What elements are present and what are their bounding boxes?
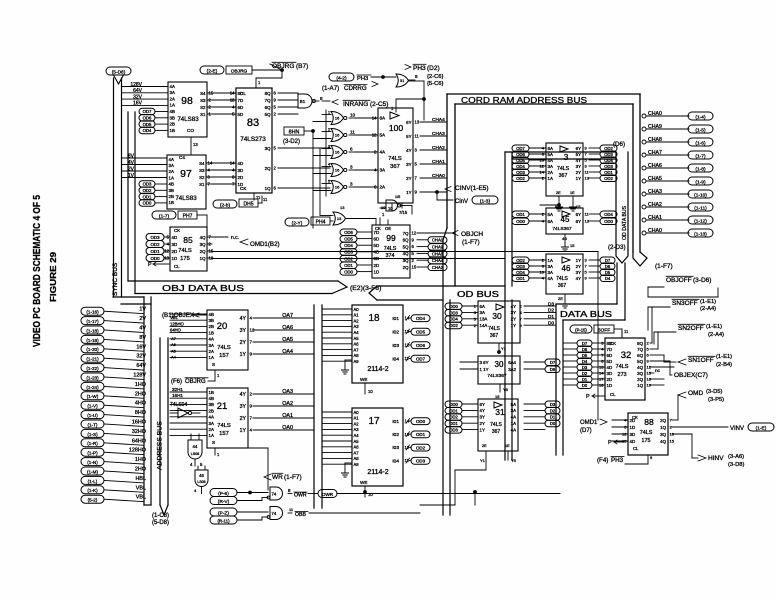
svg-text:13: 13 bbox=[340, 205, 345, 210]
net CHA8 to (1-6) bbox=[642, 140, 646, 144]
collector bus vertical bbox=[143, 297, 145, 505]
svg-text:1 1Y: 1 1Y bbox=[480, 367, 489, 372]
svg-text:OD4: OD4 bbox=[416, 316, 426, 321]
svg-text:OMD1: OMD1 bbox=[580, 420, 598, 426]
ic U32 74LS273 bbox=[605, 338, 645, 400]
svg-text:2Y: 2Y bbox=[480, 421, 485, 426]
svg-text:1Y: 1Y bbox=[240, 428, 247, 434]
svg-text:D3: D3 bbox=[582, 365, 588, 370]
svg-text:OD3: OD3 bbox=[516, 170, 525, 175]
nand gate G9 bbox=[270, 507, 283, 520]
svg-text:OD1: OD1 bbox=[604, 170, 613, 175]
svg-text:3Q: 3Q bbox=[403, 258, 409, 263]
svg-text:3D: 3D bbox=[630, 432, 636, 437]
svg-text:VBL: VBL bbox=[136, 485, 146, 491]
ic U3 row 5A bbox=[512, 151, 529, 158]
svg-text:HINV: HINV bbox=[708, 455, 724, 462]
svg-text:32H1: 32H1 bbox=[172, 387, 183, 392]
svg-text:2B: 2B bbox=[170, 122, 175, 127]
svg-text:16HO: 16HO bbox=[132, 420, 146, 426]
wire wr vertical bbox=[267, 448, 269, 490]
svg-text:CINV(1-E5): CINV(1-E5) bbox=[455, 185, 489, 192]
svg-text:2Q: 2Q bbox=[403, 265, 409, 270]
svg-text:1A: 1A bbox=[548, 258, 553, 263]
svg-text:OD2: OD2 bbox=[604, 146, 613, 151]
svg-text:74LS: 74LS bbox=[217, 423, 231, 429]
svg-text:OD5: OD5 bbox=[344, 237, 353, 242]
we junctions bbox=[364, 491, 367, 494]
svg-text:2Q: 2Q bbox=[660, 418, 666, 423]
svg-text:D5: D5 bbox=[605, 270, 611, 275]
svg-text:12: 12 bbox=[412, 231, 417, 236]
inner vertical bus v1 bbox=[442, 240, 444, 515]
svg-text:2A: 2A bbox=[548, 170, 553, 175]
svg-text:(R-11): (R-11) bbox=[217, 518, 230, 523]
svg-text:OBB: OBB bbox=[295, 512, 306, 518]
svg-text:4Q: 4Q bbox=[403, 251, 409, 256]
ic U3 74LS367 bbox=[546, 143, 583, 196]
svg-text:OD3: OD3 bbox=[416, 459, 426, 464]
nor gate G5 bbox=[331, 146, 343, 159]
svg-text:128HO: 128HO bbox=[129, 448, 146, 454]
svg-text:OD2: OD2 bbox=[516, 258, 525, 263]
wire 1Q long bbox=[212, 258, 505, 260]
svg-text:OD4: OD4 bbox=[604, 212, 613, 217]
svg-text:OA6: OA6 bbox=[282, 325, 293, 331]
svg-text:2Y: 2Y bbox=[240, 340, 247, 346]
svg-text:1B: 1B bbox=[169, 200, 174, 205]
svg-text:1A: 1A bbox=[169, 175, 174, 180]
nor gate G7 bbox=[331, 181, 343, 194]
svg-text:2HO: 2HO bbox=[135, 467, 146, 473]
svg-text:3 6Y: 3 6Y bbox=[480, 360, 489, 365]
svg-text:D7: D7 bbox=[605, 258, 611, 263]
ram U17 left pins bbox=[322, 411, 352, 413]
connector (1-20) net 16V bbox=[81, 345, 104, 353]
obj data bus horizontal bbox=[128, 280, 338, 282]
svg-text:128V: 128V bbox=[130, 82, 142, 88]
svg-text:(1-21): (1-21) bbox=[86, 357, 99, 362]
svg-text:4A: 4A bbox=[209, 415, 214, 420]
cord bus right verticals bbox=[639, 94, 641, 252]
svg-text:6D: 6D bbox=[607, 353, 613, 358]
svg-text:(1-7): (1-7) bbox=[159, 213, 170, 219]
wire 2Q long to right bbox=[212, 251, 598, 253]
svg-text:3Y: 3Y bbox=[576, 164, 581, 169]
net CHA0 to (1-4) bbox=[642, 114, 646, 118]
svg-text:1A: 1A bbox=[170, 103, 175, 108]
ic U99 input pills bbox=[340, 229, 357, 236]
svg-text:12: 12 bbox=[540, 164, 545, 169]
svg-text:D2: D2 bbox=[550, 408, 556, 413]
svg-text:ADDRESS BUS: ADDRESS BUS bbox=[157, 421, 164, 470]
svg-text:2114-2: 2114-2 bbox=[367, 366, 388, 373]
svg-text:A5: A5 bbox=[354, 336, 360, 341]
svg-text:OD5: OD5 bbox=[143, 122, 152, 127]
svg-text:CHA0: CHA0 bbox=[648, 111, 662, 117]
label VINV pill bbox=[672, 426, 728, 428]
svg-text:WE: WE bbox=[360, 377, 367, 382]
svg-text:1E: 1E bbox=[570, 191, 575, 195]
svg-text:8D: 8D bbox=[607, 341, 613, 346]
svg-text:C4: C4 bbox=[179, 155, 185, 160]
svg-text:D1: D1 bbox=[548, 314, 554, 320]
svg-text:CO: CO bbox=[187, 128, 194, 133]
svg-text:1D: 1D bbox=[172, 256, 178, 261]
svg-text:(1-4): (1-4) bbox=[695, 114, 706, 120]
svg-text:CHA0: CHA0 bbox=[648, 228, 662, 234]
svg-text:(2-Y): (2-Y) bbox=[292, 220, 303, 226]
svg-text:OD4: OD4 bbox=[516, 164, 525, 169]
ic U83 74LS273 bbox=[236, 88, 272, 193]
ram U18 2114-2 bbox=[352, 305, 403, 383]
svg-text:(1-P): (1-P) bbox=[87, 451, 98, 456]
svg-text:8V: 8V bbox=[128, 154, 135, 160]
svg-text:157: 157 bbox=[219, 353, 229, 359]
nor gate G3 bbox=[331, 112, 343, 125]
svg-text:98: 98 bbox=[181, 95, 193, 107]
svg-text:(1-M): (1-M) bbox=[87, 469, 98, 474]
svg-text:LS08: LS08 bbox=[197, 480, 205, 484]
svg-text:OD2: OD2 bbox=[143, 188, 152, 193]
svg-text:74LS367: 74LS367 bbox=[552, 226, 572, 232]
svg-text:D2: D2 bbox=[582, 371, 588, 376]
ic U85 input pills bbox=[146, 234, 164, 241]
svg-text:32V: 32V bbox=[133, 94, 143, 100]
svg-text:PH4: PH4 bbox=[316, 220, 326, 226]
svg-text:1Q: 1Q bbox=[660, 425, 666, 430]
connector (1-17) net 2V bbox=[81, 317, 104, 325]
svg-text:175: 175 bbox=[180, 256, 190, 262]
svg-text:I03: I03 bbox=[392, 445, 399, 451]
svg-text:OD4: OD4 bbox=[516, 270, 525, 275]
ram U17 2114-2 bbox=[352, 408, 403, 486]
svg-text:97: 97 bbox=[180, 168, 192, 180]
svg-text:(1-K): (1-K) bbox=[87, 488, 98, 493]
od data bus vertical bbox=[615, 152, 617, 250]
svg-text:6Y: 6Y bbox=[576, 212, 581, 217]
svg-text:(1-E1): (1-E1) bbox=[716, 354, 732, 360]
svg-text:(1-V): (1-V) bbox=[87, 404, 98, 409]
svg-text:1Y: 1Y bbox=[406, 190, 411, 195]
svg-text:1B: 1B bbox=[209, 390, 214, 395]
svg-text:16V: 16V bbox=[133, 101, 143, 107]
svg-text:(1-T): (1-T) bbox=[88, 422, 98, 427]
svg-text:A5: A5 bbox=[354, 439, 360, 444]
svg-text:16: 16 bbox=[335, 133, 340, 138]
svg-text:13: 13 bbox=[599, 365, 604, 370]
svg-text:VBL: VBL bbox=[136, 495, 146, 501]
svg-text:OD4: OD4 bbox=[344, 243, 353, 248]
svg-text:CHA3: CHA3 bbox=[648, 189, 662, 195]
svg-text:30: 30 bbox=[492, 311, 502, 321]
svg-text:1Q: 1Q bbox=[637, 383, 643, 388]
ic U3 row 1A bbox=[512, 175, 529, 182]
svg-text:1A: 1A bbox=[511, 421, 516, 426]
svg-text:13: 13 bbox=[415, 120, 420, 125]
svg-text:5Q: 5Q bbox=[265, 112, 271, 117]
svg-text:5D: 5D bbox=[238, 112, 244, 117]
svg-text:2Q: 2Q bbox=[200, 249, 206, 254]
svg-text:OA2: OA2 bbox=[282, 401, 293, 407]
svg-text:46: 46 bbox=[562, 264, 571, 273]
svg-text:(3-D2): (3-D2) bbox=[283, 139, 300, 145]
svg-text:74LS83: 74LS83 bbox=[177, 116, 199, 123]
svg-text:11: 11 bbox=[350, 130, 355, 135]
svg-text:4Y: 4Y bbox=[511, 304, 516, 309]
svg-text:20: 20 bbox=[217, 321, 228, 332]
svg-text:1E: 1E bbox=[505, 444, 510, 448]
svg-text:11: 11 bbox=[415, 134, 420, 139]
svg-text:OBJEX(C7): OBJEX(C7) bbox=[674, 372, 708, 379]
svg-text:4Q: 4Q bbox=[200, 235, 206, 240]
ic U31 74LS367 bbox=[478, 399, 518, 451]
svg-text:CHA2: CHA2 bbox=[432, 265, 444, 270]
ic U30a 74LS367 bbox=[478, 301, 520, 343]
svg-text:10: 10 bbox=[388, 206, 393, 211]
svg-text:D4: D4 bbox=[605, 276, 611, 281]
svg-text:CHA2: CHA2 bbox=[648, 202, 662, 208]
svg-text:(2-B4): (2-B4) bbox=[716, 362, 732, 368]
pill (2-b) DH5 bbox=[213, 200, 237, 208]
ic U30b bottom bbox=[499, 384, 501, 392]
svg-text:32V: 32V bbox=[136, 354, 146, 360]
svg-text:367: 367 bbox=[490, 333, 499, 339]
ic U20 bottom pin bbox=[214, 370, 216, 377]
svg-text:13: 13 bbox=[337, 216, 342, 221]
svg-text:S: S bbox=[212, 362, 215, 367]
svg-text:CHA1: CHA1 bbox=[432, 159, 445, 165]
svg-text:S1: S1 bbox=[199, 182, 205, 187]
svg-text:CHA6: CHA6 bbox=[648, 163, 662, 169]
wires from U32 outputs to labels bbox=[650, 342, 652, 344]
svg-text:13: 13 bbox=[164, 256, 169, 261]
svg-text:(1-A7): (1-A7) bbox=[322, 85, 339, 92]
svg-text:83: 83 bbox=[247, 117, 259, 129]
svg-text:OD3: OD3 bbox=[449, 428, 458, 433]
svg-text:OD3: OD3 bbox=[516, 264, 525, 269]
label HINV bbox=[672, 433, 692, 435]
svg-text:3Q: 3Q bbox=[200, 242, 206, 247]
svg-text:I01: I01 bbox=[392, 419, 399, 425]
svg-text:OD4: OD4 bbox=[143, 128, 152, 133]
svg-text:CHA0: CHA0 bbox=[432, 173, 445, 179]
svg-text:4Y: 4Y bbox=[406, 148, 411, 153]
svg-text:CHA9: CHA9 bbox=[648, 124, 662, 130]
connector (1-22) net 64V bbox=[81, 364, 104, 372]
svg-text:3A: 3A bbox=[209, 343, 214, 348]
svg-text:OD1: OD1 bbox=[516, 276, 525, 281]
svg-text:2Y: 2Y bbox=[511, 317, 516, 322]
svg-text:I01: I01 bbox=[392, 316, 399, 322]
svg-text:(1-12): (1-12) bbox=[694, 218, 707, 224]
svg-text:128V: 128V bbox=[133, 373, 146, 379]
and gate G44 bbox=[188, 440, 202, 459]
ic U31 rows bbox=[445, 401, 462, 408]
svg-text:3: 3 bbox=[328, 145, 330, 149]
svg-text:74LS: 74LS bbox=[178, 248, 192, 254]
net CHA9 to (1-5) bbox=[642, 127, 646, 131]
svg-text:Y5: Y5 bbox=[511, 458, 517, 463]
svg-text:1V: 1V bbox=[139, 307, 146, 313]
svg-text:(F4): (F4) bbox=[597, 457, 608, 464]
label OMD(3-D5) bbox=[678, 392, 686, 398]
svg-text:A2: A2 bbox=[354, 318, 360, 323]
wire CINV from 1Y bbox=[420, 191, 447, 193]
svg-text:OA0: OA0 bbox=[282, 425, 293, 431]
svg-text:{5-C6}: {5-C6} bbox=[427, 81, 444, 87]
svg-text:VIDEO PC BOARD SCHEMATIC 4 OF: VIDEO PC BOARD SCHEMATIC 4 OF 5 bbox=[31, 195, 43, 347]
svg-text:4A: 4A bbox=[511, 415, 516, 420]
svg-text:4A: 4A bbox=[380, 150, 387, 155]
svg-text:(2-A4): (2-A4) bbox=[700, 306, 716, 312]
data bus horizontal bbox=[556, 303, 617, 305]
svg-text:16: 16 bbox=[335, 116, 340, 121]
svg-text:5Y: 5Y bbox=[406, 134, 411, 139]
svg-text:(1-7): (1-7) bbox=[695, 153, 706, 159]
ic U97 74LS83 bbox=[167, 155, 206, 209]
svg-text:6Y: 6Y bbox=[576, 146, 581, 151]
svg-text:3D: 3D bbox=[374, 256, 380, 261]
svg-text:PH3: PH3 bbox=[413, 65, 426, 72]
svg-text:(3-P5): (3-P5) bbox=[708, 397, 724, 403]
svg-text:2Q: 2Q bbox=[637, 377, 643, 382]
svg-text:OBJRG: OBJRG bbox=[272, 63, 294, 70]
svg-text:OD1: OD1 bbox=[416, 432, 426, 437]
svg-text:OD5: OD5 bbox=[516, 158, 525, 163]
svg-text:2Y: 2Y bbox=[406, 176, 411, 181]
svg-text:1/5: 1/5 bbox=[395, 195, 400, 199]
svg-text:1A: 1A bbox=[209, 433, 214, 438]
svg-text:OD0: OD0 bbox=[449, 304, 458, 309]
svg-text:OD3: OD3 bbox=[449, 310, 458, 315]
svg-text:88: 88 bbox=[644, 417, 654, 427]
svg-text:Y1: Y1 bbox=[480, 458, 486, 463]
cord bus right arrow end bbox=[633, 252, 647, 266]
svg-text:13A: 13A bbox=[480, 317, 488, 322]
svg-text:74: 74 bbox=[272, 491, 277, 496]
svg-text:3Y: 3Y bbox=[240, 404, 247, 410]
svg-text:OD2: OD2 bbox=[516, 176, 525, 181]
svg-text:(3-A6): (3-A6) bbox=[728, 454, 744, 460]
svg-text:8: 8 bbox=[415, 74, 418, 79]
svg-text:(1-L): (1-L) bbox=[88, 479, 98, 484]
svg-text:CL: CL bbox=[174, 264, 180, 269]
svg-text:(1-6): (1-6) bbox=[695, 140, 706, 146]
svg-text:OA3: OA3 bbox=[282, 389, 293, 395]
svg-text:A8: A8 bbox=[354, 456, 360, 461]
svg-text:74LS: 74LS bbox=[557, 166, 570, 172]
svg-text:8V: 8V bbox=[139, 335, 146, 341]
bottom pills row1 bbox=[210, 489, 237, 497]
ic U32 top pin bbox=[621, 331, 623, 338]
wire inrang bbox=[322, 100, 330, 102]
data bus left vertical bbox=[555, 304, 557, 455]
net CHA1 to (1-12) bbox=[642, 218, 646, 222]
svg-text:(B7): (B7) bbox=[296, 63, 308, 70]
net CHA0 to (1-13) bbox=[642, 231, 646, 235]
svg-text:2D: 2D bbox=[607, 377, 613, 382]
svg-text:3Y: 3Y bbox=[480, 415, 485, 420]
connector (1-R) net 64HO bbox=[81, 439, 104, 447]
svg-text:(5-D8): (5-D8) bbox=[112, 69, 126, 75]
svg-text:1V: 1V bbox=[128, 173, 135, 179]
svg-text:17: 17 bbox=[368, 416, 380, 427]
ic U21 74LS157 bbox=[207, 388, 248, 448]
sync bus vertical bbox=[113, 78, 115, 297]
svg-text:OD2: OD2 bbox=[150, 242, 160, 247]
svg-text:74LS: 74LS bbox=[488, 326, 500, 332]
svg-text:11: 11 bbox=[256, 195, 261, 200]
svg-text:(5-2): (5-2) bbox=[88, 498, 98, 503]
svg-text:31: 31 bbox=[495, 407, 505, 417]
svg-text:OBJRG: OBJRG bbox=[231, 69, 248, 75]
ic U98 74LS83 bbox=[168, 82, 207, 137]
svg-text:11: 11 bbox=[263, 197, 268, 202]
svg-text:D6: D6 bbox=[605, 264, 611, 269]
svg-text:3A2: 3A2 bbox=[508, 367, 516, 372]
svg-text:OD1: OD1 bbox=[516, 212, 525, 217]
svg-text:46: 46 bbox=[199, 473, 204, 478]
svg-text:(1-F7): (1-F7) bbox=[462, 239, 480, 246]
svg-text:A3: A3 bbox=[354, 324, 360, 329]
ic U30a bottom pin bbox=[498, 343, 500, 352]
svg-text:SN3OFF: SN3OFF bbox=[672, 300, 698, 307]
ic U21 bottom pin bbox=[214, 448, 216, 455]
svg-text:6Y: 6Y bbox=[406, 120, 411, 125]
svg-text:6: 6 bbox=[350, 147, 353, 152]
svg-text:(1-E1): (1-E1) bbox=[706, 324, 722, 330]
connector (1-M) net 2HO bbox=[81, 467, 104, 475]
svg-text:4A: 4A bbox=[169, 157, 174, 162]
svg-text:4B: 4B bbox=[170, 109, 175, 114]
ic U99 top pin 1 bbox=[379, 218, 381, 225]
connector (1-24) net 1HO bbox=[81, 382, 104, 390]
svg-text:7D: 7D bbox=[607, 347, 613, 352]
svg-text:(D6): (D6) bbox=[613, 141, 625, 148]
svg-text:4D: 4D bbox=[172, 235, 178, 240]
ic U100 74LS367 bbox=[378, 108, 413, 203]
svg-text:4A: 4A bbox=[511, 427, 516, 432]
svg-text:I04: I04 bbox=[392, 458, 399, 464]
svg-text:LS08: LS08 bbox=[191, 452, 199, 456]
svg-text:15: 15 bbox=[495, 394, 500, 399]
ic U30b 74LS367 bbox=[478, 356, 520, 384]
svg-text:14: 14 bbox=[599, 371, 604, 376]
we wire long bbox=[308, 493, 318, 495]
ic U30a rows bbox=[445, 303, 462, 310]
wire objch bbox=[417, 232, 455, 234]
svg-text:1A: 1A bbox=[548, 176, 553, 181]
svg-text:OD1: OD1 bbox=[449, 421, 458, 426]
svg-text:D2: D2 bbox=[548, 308, 554, 314]
svg-text:OD4: OD4 bbox=[604, 158, 613, 163]
svg-text:S: S bbox=[212, 440, 215, 445]
svg-text:74LS: 74LS bbox=[388, 156, 402, 162]
svg-text:13: 13 bbox=[193, 142, 198, 147]
or gate G2 bbox=[396, 74, 408, 87]
svg-text:14: 14 bbox=[540, 170, 545, 175]
svg-text:74LS: 74LS bbox=[556, 276, 568, 282]
svg-text:2B: 2B bbox=[169, 194, 174, 199]
svg-text:16: 16 bbox=[335, 150, 340, 155]
svg-text:OD1: OD1 bbox=[449, 408, 458, 413]
connector (1-V) net 4HO bbox=[81, 401, 104, 409]
net CHA5 to (1-9) bbox=[642, 179, 646, 183]
svg-text:44: 44 bbox=[193, 444, 198, 449]
svg-text:64HO: 64HO bbox=[132, 438, 146, 444]
svg-text:4B: 4B bbox=[169, 182, 174, 187]
